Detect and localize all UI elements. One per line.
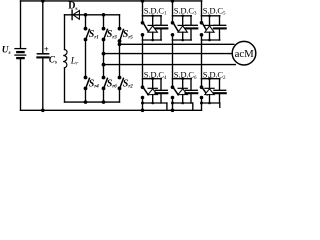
switch Sr3 terminals — [102, 27, 106, 31]
battery Us — [15, 1, 26, 110]
wire mid dc line — [65, 14, 120, 16]
svg-text:S.D.C3: S.D.C3 — [174, 5, 197, 16]
node leg2 bottom junction — [102, 100, 106, 104]
inverter leg 3 — [120, 15, 124, 102]
svg-text:S.D.C1: S.D.C1 — [144, 5, 167, 16]
capacitor Cs — [37, 1, 48, 110]
wire lower switch rail — [65, 101, 120, 103]
node phase c junction — [102, 63, 106, 67]
svg-text:S.D.C2: S.D.C2 — [203, 70, 226, 81]
S.D.C module bottom 2 — [173, 79, 198, 111]
wire phase line b — [104, 53, 233, 55]
S.D.C module top 1 — [143, 1, 168, 79]
svg-text:S.D.C6: S.D.C6 — [174, 70, 197, 81]
switch Sr5 terminals — [118, 27, 122, 31]
inverter leg 1 — [86, 15, 90, 102]
node leg1 bottom junction — [84, 100, 88, 104]
svg-text:S.D.C5: S.D.C5 — [203, 5, 226, 16]
node Cs top junction — [41, 0, 45, 3]
svg-text:+: + — [44, 45, 49, 54]
motor acM — [232, 41, 256, 65]
S.D.C module bottom 1 — [143, 79, 168, 111]
diode Ds — [72, 10, 79, 19]
S.D.C module top 2 — [173, 1, 198, 79]
switch Sr6 terminals — [102, 76, 106, 80]
wire bottom rail — [21, 109, 202, 111]
switch Sr1 terminals — [84, 27, 88, 31]
wire phase line a — [120, 43, 234, 45]
svg-text:S.D.C4: S.D.C4 — [144, 70, 167, 81]
node phase a junction — [118, 42, 122, 46]
node Cs bottom junction — [41, 109, 45, 113]
inductor Lr — [63, 15, 67, 102]
switch Sr2 terminals — [118, 76, 122, 80]
wire top rail — [21, 0, 202, 2]
node phase b junction — [102, 52, 106, 56]
node leg2 top junction — [102, 13, 106, 17]
inverter leg 2 — [104, 15, 108, 102]
switch Sr4 terminals — [84, 76, 88, 80]
wire phase line c — [104, 64, 236, 66]
node leg1 top junction — [84, 13, 88, 17]
svg-text:acM: acM — [235, 48, 255, 60]
S.D.C module top 3 — [202, 1, 226, 79]
S.D.C module bottom 3 — [202, 79, 226, 111]
